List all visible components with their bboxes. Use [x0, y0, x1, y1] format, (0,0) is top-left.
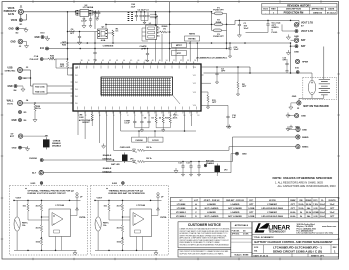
svg-text:52: 52	[180, 60, 182, 62]
svg-text:OPT: OPT	[291, 208, 296, 210]
svg-text:BAT: BAT	[301, 45, 306, 48]
customer notice box	[178, 222, 231, 248]
svg-text:LOT: LOT	[194, 200, 199, 202]
turret E8 VOUT	[282, 24, 313, 33]
svg-text:48: 48	[152, 60, 154, 62]
svg-text:60.8k: 60.8k	[290, 216, 296, 218]
capacitor C13	[186, 161, 192, 176]
svg-text:53: 53	[187, 60, 189, 62]
label box MPPC	[172, 43, 187, 48]
output net U3	[71, 215, 78, 217]
svg-text:30.1k: 30.1k	[35, 108, 41, 110]
capacitor CGATE	[139, 45, 149, 62]
svg-text:ENABLE: ENABLE	[103, 167, 112, 170]
assembly options table	[170, 198, 338, 219]
svg-text:2.2uF: 2.2uF	[320, 212, 326, 214]
svg-text:OPT: OPT	[221, 71, 226, 73]
svg-text:30.5k: 30.5k	[306, 212, 312, 214]
svg-text:REV: REV	[271, 9, 276, 11]
turret E5	[19, 111, 28, 115]
svg-text:VC4: VC4	[193, 105, 196, 107]
terminal E21 HPWR	[295, 59, 308, 63]
fuse F1	[213, 7, 224, 14]
svg-text:OPT: OPT	[212, 102, 217, 104]
svg-text:4.7uF: 4.7uF	[81, 20, 87, 23]
wire fuse out	[227, 23, 236, 25]
terminal E7 VOUT	[294, 22, 313, 27]
label box NTC	[172, 51, 187, 56]
turret E1 VOUT	[11, 19, 23, 27]
jumper JP2 BAT LED ENABLE	[206, 160, 227, 176]
turret E16	[295, 68, 300, 74]
svg-text:LR5-LRC40 BLF-R666: LR5-LRC40 BLF-R666	[261, 207, 283, 210]
svg-text:VC0: VC0	[193, 67, 196, 69]
svg-text:C2 22uF x3: C2 22uF x3	[138, 10, 150, 12]
svg-text:SIZE: SIZE	[254, 247, 259, 249]
resistor R5	[138, 147, 230, 152]
svg-text:15uF: 15uF	[330, 212, 336, 214]
capacitor C18	[228, 42, 239, 58]
svg-text:DISABLE: DISABLE	[102, 171, 112, 174]
wire fuse feed y24.4	[157, 23, 212, 25]
thermistor RNTC U4	[95, 217, 101, 231]
svg-text:MPPC: MPPC	[176, 45, 183, 47]
svg-text:4.8A: 4.8A	[101, 39, 106, 42]
battery cell ellipse	[308, 80, 315, 94]
svg-text:www.linear.com: www.linear.com	[322, 226, 337, 228]
svg-text:49: 49	[159, 60, 161, 62]
resistor R25 OPT	[60, 59, 69, 75]
resistor R15	[162, 111, 170, 128]
svg-text:CUSTOMER NOTICE: CUSTOMER NOTICE	[188, 223, 222, 227]
turret E15	[231, 152, 247, 172]
capacitor CTMR	[124, 111, 136, 128]
svg-text:PRODUCTION RM: PRODUCTION RM	[284, 12, 304, 14]
svg-text:APPROVALS: APPROVALS	[235, 224, 249, 227]
svg-text:USB: USB	[7, 66, 12, 69]
svg-text:SCALE = NONE: SCALE = NONE	[234, 254, 249, 257]
IC exposed pad grid	[101, 77, 180, 104]
capacitor C6	[67, 29, 95, 45]
turret E10 GND	[34, 32, 45, 38]
approvals box	[231, 222, 252, 257]
svg-text:18: 18	[197, 115, 199, 117]
svg-text:FUSE OPT: FUSE OPT	[213, 10, 224, 12]
svg-text:JP B/T - FOR U2: JP B/T - FOR U2	[204, 200, 221, 202]
svg-text:DATE: 07-30-12: DATE: 07-30-12	[254, 255, 269, 258]
svg-text:DESCRIPTION: DESCRIPTION	[286, 9, 301, 11]
dashed option box U4	[91, 186, 169, 256]
turret E27 ILIM2	[112, 182, 124, 185]
IC pins top	[80, 62, 194, 65]
svg-text:NOT ON THE BOARD: NOT ON THE BOARD	[303, 105, 328, 108]
resistor R16	[169, 111, 178, 128]
svg-text:NOT LOADED: NOT LOADED	[228, 215, 242, 218]
svg-text:C13: C13	[186, 162, 189, 164]
turret E11	[40, 47, 48, 50]
terminal J6	[10, 133, 23, 138]
svg-text:42: 42	[109, 60, 111, 62]
svg-text:DEMO B: DEMO B	[313, 12, 322, 14]
svg-text:8: 8	[127, 115, 128, 117]
svg-text:CHRGE: CHRGE	[135, 140, 143, 142]
resistor RSNS	[160, 26, 170, 33]
svg-text:LTC3405A: LTC3405A	[83, 6, 94, 9]
wire vertical trunk x169.6	[169, 2, 171, 62]
svg-text:OPT: OPT	[249, 212, 254, 214]
svg-text:OPT: OPT	[70, 33, 75, 35]
svg-text:5V IN: 5V IN	[7, 103, 13, 105]
wire battery bottom	[311, 95, 313, 99]
inductor L1 box	[142, 23, 160, 41]
label box RNTB	[185, 34, 200, 41]
ground row under IC	[135, 127, 149, 129]
fuse rails	[211, 12, 213, 31]
wires USB to IC	[23, 69, 31, 71]
svg-text:1. ALL RESISTORS ARE IN OHMS,: 1. ALL RESISTORS ARE IN OHMS, 0603	[275, 180, 323, 184]
svg-text:DURING VOUT 5P/2 SHORT CIRCUIT: DURING VOUT 5P/2 SHORT CIRCUIT	[28, 193, 67, 195]
terminal E18 GND	[286, 113, 306, 118]
resistor R6	[138, 158, 233, 163]
svg-text:BATTERY CHARGER CONTROL AND PO: BATTERY CHARGER CONTROL AND POWER MANAGE…	[254, 240, 333, 244]
svg-text:DEMO CIRCUIT 1536B A (B) / C: DEMO CIRCUIT 1536B A (B) / C (D)	[273, 250, 322, 254]
svg-text:46: 46	[137, 60, 139, 62]
svg-text:COMMODE: COMMODE	[103, 46, 114, 48]
wire BAT feed y73	[204, 72, 313, 74]
output net U4	[152, 215, 159, 217]
ground C11	[174, 168, 178, 173]
terminal E20	[286, 126, 307, 132]
title rows	[252, 235, 339, 258]
svg-text:ENABLE: ENABLE	[103, 154, 112, 157]
capacitor C4	[215, 66, 226, 84]
terminal J3 USB	[5, 66, 29, 72]
svg-text:U2 P/N: U2 P/N	[269, 200, 276, 202]
svg-text:LR5-LRC40 BLF-R666: LR5-LRC40 BLF-R666	[261, 215, 283, 218]
svg-text:LOADED: LOADED	[207, 203, 216, 206]
wire battery top	[311, 73, 313, 80]
ground top of boxes	[228, 125, 231, 129]
resistor R1	[108, 28, 120, 43]
svg-text:VC1: VC1	[193, 75, 196, 77]
svg-text:IN3: IN3	[75, 89, 78, 91]
svg-text:WALL: WALL	[7, 99, 14, 102]
IC pin numbers	[78, 60, 199, 117]
svg-text:GND: GND	[8, 28, 13, 30]
wire y131	[120, 111, 122, 131]
svg-text:VOUT: VOUT	[97, 198, 103, 200]
svg-text:GND: GND	[34, 37, 39, 39]
resistor R28	[23, 102, 74, 122]
wire bottom rail U4	[95, 249, 158, 251]
terminal E17 SMBC	[296, 145, 309, 149]
svg-text:BAT: BAT	[301, 39, 306, 42]
wire J1 to E1	[20, 14, 22, 18]
svg-text:EXT: EXT	[10, 136, 15, 138]
turret C1A PULLUP	[30, 55, 43, 61]
svg-text:JP2: JP2	[224, 170, 227, 172]
LED BAT D2	[106, 160, 137, 166]
terminal J4 WALL	[7, 99, 29, 106]
svg-text:VOUT: VOUT	[16, 198, 22, 200]
svg-text:LTC4088EUFD-1/LTC4098EUFD-1: LTC4088EUFD-1/LTC4098EUFD-1	[196, 57, 228, 60]
wire left pins	[56, 67, 73, 69]
svg-text:NOT LOADED: NOT LOADED	[228, 207, 242, 210]
svg-text:0.1MB: 0.1MB	[248, 208, 255, 210]
svg-text:0.1uF: 0.1uF	[124, 123, 130, 125]
svg-text:RB: RB	[299, 200, 303, 202]
svg-text:LTC Confidential-For Customer: LTC Confidential-For Customer Use Only	[297, 232, 335, 235]
turret GND E6	[11, 119, 27, 123]
regulator U2 cluster	[76, 5, 101, 28]
wire SENSE	[204, 82, 212, 84]
svg-text:17: 17	[190, 115, 192, 117]
IC inner pin names	[75, 67, 196, 107]
customer notice box 2	[178, 249, 231, 257]
svg-text:TITLE: SCHEMATIC: TITLE: SCHEMATIC	[254, 236, 275, 239]
svg-text:SHEET 1 OF 1: SHEET 1 OF 1	[311, 256, 325, 258]
capacitor bank C2A	[128, 3, 139, 21]
svg-text:CHRG LED: CHRG LED	[120, 147, 131, 149]
svg-text:CNTRL: CNTRL	[160, 217, 168, 219]
svg-text:PAD B/T - FOR U2: PAD B/T - FOR U2	[226, 199, 244, 202]
transistor Q1	[95, 12, 108, 43]
address text	[297, 223, 337, 235]
svg-text:NOTE: UNLESS OTHERWISE SPECIFI: NOTE: UNLESS OTHERWISE SPECIFIED	[273, 176, 334, 180]
svg-text:ALT: ALT	[32, 172, 37, 175]
wire CHRGE	[43, 159, 113, 161]
wire MPPC rail	[60, 42, 291, 44]
turret CHRGE	[29, 158, 43, 162]
wire E11 right	[49, 48, 231, 50]
terminal ALT	[32, 171, 43, 175]
svg-text:ENABLE: ENABLE	[206, 162, 215, 165]
svg-text:OPT: OPT	[141, 48, 146, 50]
svg-text:RMW: RMW	[290, 200, 295, 202]
IC pins left	[71, 68, 74, 103]
wires from label boxes to IC	[175, 48, 177, 62]
svg-text:GND: GND	[10, 41, 15, 43]
svg-text:BOOST: BOOST	[82, 122, 90, 124]
svg-text:CNTRL: CNTRL	[79, 217, 87, 219]
svg-text:5V/BC/WC: 5V/BC/WC	[5, 70, 16, 72]
wire pin right y67	[204, 66, 251, 68]
svg-text:REVISION HISTORY: REVISION HISTORY	[287, 4, 311, 7]
svg-text:IN5: IN5	[75, 103, 78, 105]
capacitor C20	[246, 20, 282, 34]
turret E26 ILIM1	[31, 182, 43, 185]
svg-text:GND: GND	[292, 96, 297, 98]
label box DCDIV intrpt	[148, 131, 163, 142]
svg-text:ILIM1: ILIM1	[31, 183, 36, 185]
label box CHRGE intrpt	[132, 131, 147, 142]
svg-text:45: 45	[130, 60, 132, 62]
svg-text:15uF: 15uF	[330, 204, 336, 206]
svg-text:30.5k: 30.5k	[306, 204, 312, 206]
svg-text:GND: GND	[11, 120, 16, 122]
revision history table	[262, 3, 337, 14]
jumper JP1	[23, 136, 62, 150]
svg-text:VC3: VC3	[193, 92, 196, 94]
svg-text:2.2uF: 2.2uF	[320, 216, 326, 218]
svg-text:43: 43	[116, 60, 118, 62]
thermistor RNTC U3	[14, 217, 20, 231]
resistor PROG	[155, 111, 162, 128]
capacitor bank C2	[138, 10, 150, 24]
svg-text:NTC: NTC	[177, 53, 182, 55]
svg-text:40: 40	[95, 60, 97, 62]
svg-text:47: 47	[145, 60, 147, 62]
ground E9	[286, 35, 299, 40]
svg-text:11: 11	[148, 115, 150, 117]
svg-text:LTC1540: LTC1540	[56, 204, 65, 207]
svg-text:12: 12	[155, 115, 157, 117]
turret LED PWR	[204, 164, 207, 167]
svg-text:07-30-12: 07-30-12	[327, 12, 337, 14]
svg-text:RNTB: RNTB	[189, 34, 195, 36]
capacitor C3 COMMODE	[93, 43, 114, 62]
svg-text:15.2k: 15.2k	[298, 208, 304, 210]
svg-text:GND: GND	[301, 116, 306, 118]
resistor R11	[206, 92, 217, 109]
svg-text:PCB DES.: PCB DES.	[232, 230, 241, 232]
svg-text:TECHNOLOGY: TECHNOLOGY	[269, 231, 287, 234]
wire Q1 top feed	[105, 24, 107, 29]
wire BAT rail	[290, 43, 292, 73]
svg-text:1.0M: 1.0M	[79, 117, 84, 119]
svg-text:GND: GND	[7, 86, 12, 88]
capacitor C8	[140, 111, 147, 128]
svg-text:54: 54	[194, 60, 196, 62]
turret GND E2	[8, 27, 19, 35]
svg-text:BAT LED: BAT LED	[111, 163, 120, 166]
svg-text:DISABLE: DISABLE	[52, 144, 62, 147]
fuse F3	[213, 29, 224, 38]
battery dashed box	[303, 77, 337, 99]
IC pins bottom	[78, 111, 197, 114]
svg-text:OPT: OPT	[249, 204, 254, 206]
svg-text:LTC4098-1: LTC4098-1	[176, 211, 187, 214]
svg-text:ILIM2: ILIM2	[112, 183, 117, 185]
svg-text:LOADED: LOADED	[207, 211, 216, 214]
svg-text:GND: GND	[242, 154, 247, 156]
turret E13 BAT	[295, 45, 306, 49]
svg-text:3A IN: 3A IN	[8, 13, 14, 16]
svg-text:2.2uF: 2.2uF	[320, 204, 326, 206]
terminal GND battery	[289, 96, 301, 110]
wire U2 rail	[75, 11, 77, 12]
svg-text:50: 50	[166, 60, 168, 62]
svg-text:VOUT 3.7B: VOUT 3.7B	[301, 23, 313, 25]
svg-text:41: 41	[102, 60, 104, 62]
svg-text:DIGITS: DIGITS	[329, 200, 337, 202]
svg-text:IN4: IN4	[75, 96, 78, 98]
svg-text:0.1MB: 0.1MB	[248, 216, 255, 218]
svg-text:PULLUP: PULLUP	[30, 59, 39, 61]
svg-text:R24 6.81k: R24 6.81k	[35, 90, 45, 93]
svg-text:LT3480EF: LT3480EF	[267, 203, 277, 206]
IC pins right	[201, 67, 204, 105]
svg-text:GRN10: GRN10	[272, 27, 280, 29]
svg-text:LT3480EF: LT3480EF	[267, 211, 277, 214]
svg-text:0.1MB: 0.1MB	[312, 212, 319, 214]
dashed option box U3	[10, 186, 88, 256]
svg-text:VC2: VC2	[193, 83, 196, 85]
svg-text:OPT: OPT	[330, 208, 335, 210]
svg-text:DURING RED BAT ON OPERATION: DURING RED BAT ON OPERATION	[109, 192, 146, 195]
svg-text:PLUG: PLUG	[272, 32, 278, 34]
svg-text:OPT: OPT	[242, 86, 247, 88]
note text	[273, 176, 337, 188]
wire right column links	[228, 147, 230, 151]
svg-text:VOUT 3.7B: VOUT 3.7B	[301, 31, 313, 33]
svg-text:R23 6.81k: R23 6.81k	[35, 86, 45, 88]
terminal J1 VBUS	[4, 7, 24, 17]
terminal GND J2	[10, 39, 22, 48]
wire top rail U4	[95, 199, 162, 201]
battery plates	[319, 80, 330, 99]
turret E3	[19, 77, 28, 81]
svg-text:R5 1k: R5 1k	[146, 147, 152, 149]
wire ALT long	[43, 172, 231, 174]
svg-text:R6 1k: R6 1k	[146, 158, 152, 160]
wire VBUS to fuse rail	[23, 11, 211, 13]
svg-text:NOT LOADED: NOT LOADED	[205, 215, 219, 218]
capacitor/left labels under IC	[79, 111, 106, 148]
svg-text:DC/MK: DC/MK	[243, 234, 249, 236]
resistor R26 1.2k	[43, 55, 67, 60]
terminal E12 BAT	[294, 38, 306, 43]
svg-text:C1A: C1A	[34, 55, 39, 58]
capacitor C14	[197, 161, 200, 176]
capacitor C16	[204, 105, 237, 128]
svg-text:HPWR: HPWR	[302, 62, 309, 64]
svg-text:15.2k: 15.2k	[298, 204, 304, 206]
LED CHRG D1	[114, 147, 138, 153]
svg-text:4: 4	[99, 115, 100, 117]
svg-text:DCDIV: DCDIV	[152, 140, 159, 142]
turret GND E4	[7, 85, 17, 92]
svg-text:10uF: 10uF	[244, 28, 250, 30]
svg-text:OPT: OPT	[330, 216, 335, 218]
svg-text:38: 38	[81, 60, 83, 62]
svg-text:60.8k: 60.8k	[290, 212, 296, 214]
svg-text:IN2: IN2	[75, 82, 78, 84]
svg-text:10nF: 10nF	[234, 49, 240, 51]
wire top rail U3	[14, 199, 81, 201]
ground sym	[24, 27, 28, 32]
ground E14	[286, 50, 290, 55]
svg-text:OPT: OPT	[291, 204, 296, 206]
svg-text:2.2uF: 2.2uF	[320, 208, 326, 210]
svg-text:IN0: IN0	[75, 68, 78, 70]
svg-text:LTC4088: LTC4088	[177, 203, 186, 206]
svg-text:LOADED: LOADED	[231, 203, 240, 206]
resistor R2	[236, 66, 247, 96]
fuse F2	[215, 20, 223, 26]
svg-text:GND: GND	[302, 129, 307, 131]
svg-text:C12: C12	[178, 162, 181, 164]
svg-text:2: 2	[85, 115, 86, 117]
net labels ENABLE/DISABLE	[102, 154, 112, 173]
svg-text:LTC4098-1: LTC4098-1	[176, 215, 187, 218]
IC inner pin labels	[78, 66, 197, 110]
svg-text:IN1: IN1	[75, 75, 78, 77]
svg-text:LTC1540: LTC1540	[137, 204, 146, 207]
title block	[252, 222, 339, 257]
svg-text:DATE: DATE	[328, 8, 334, 11]
capacitor C9	[147, 111, 154, 128]
